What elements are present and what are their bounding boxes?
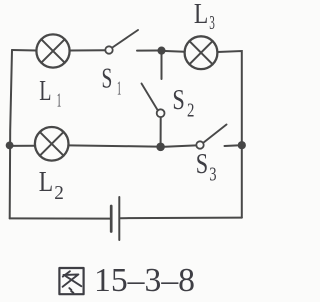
svg-text:L: L [39, 167, 53, 198]
svg-text:S: S [102, 63, 113, 94]
svg-text:3: 3 [209, 12, 215, 34]
svg-text:2: 2 [187, 99, 194, 121]
svg-text:1: 1 [117, 78, 121, 100]
svg-text:15–3–8: 15–3–8 [94, 262, 195, 299]
svg-text:L: L [39, 76, 51, 107]
svg-text:1: 1 [57, 89, 62, 111]
svg-text:S: S [196, 149, 208, 180]
svg-text:3: 3 [209, 163, 216, 185]
svg-text:2: 2 [54, 182, 64, 204]
svg-text:S: S [172, 85, 184, 116]
svg-text:L: L [194, 0, 208, 30]
